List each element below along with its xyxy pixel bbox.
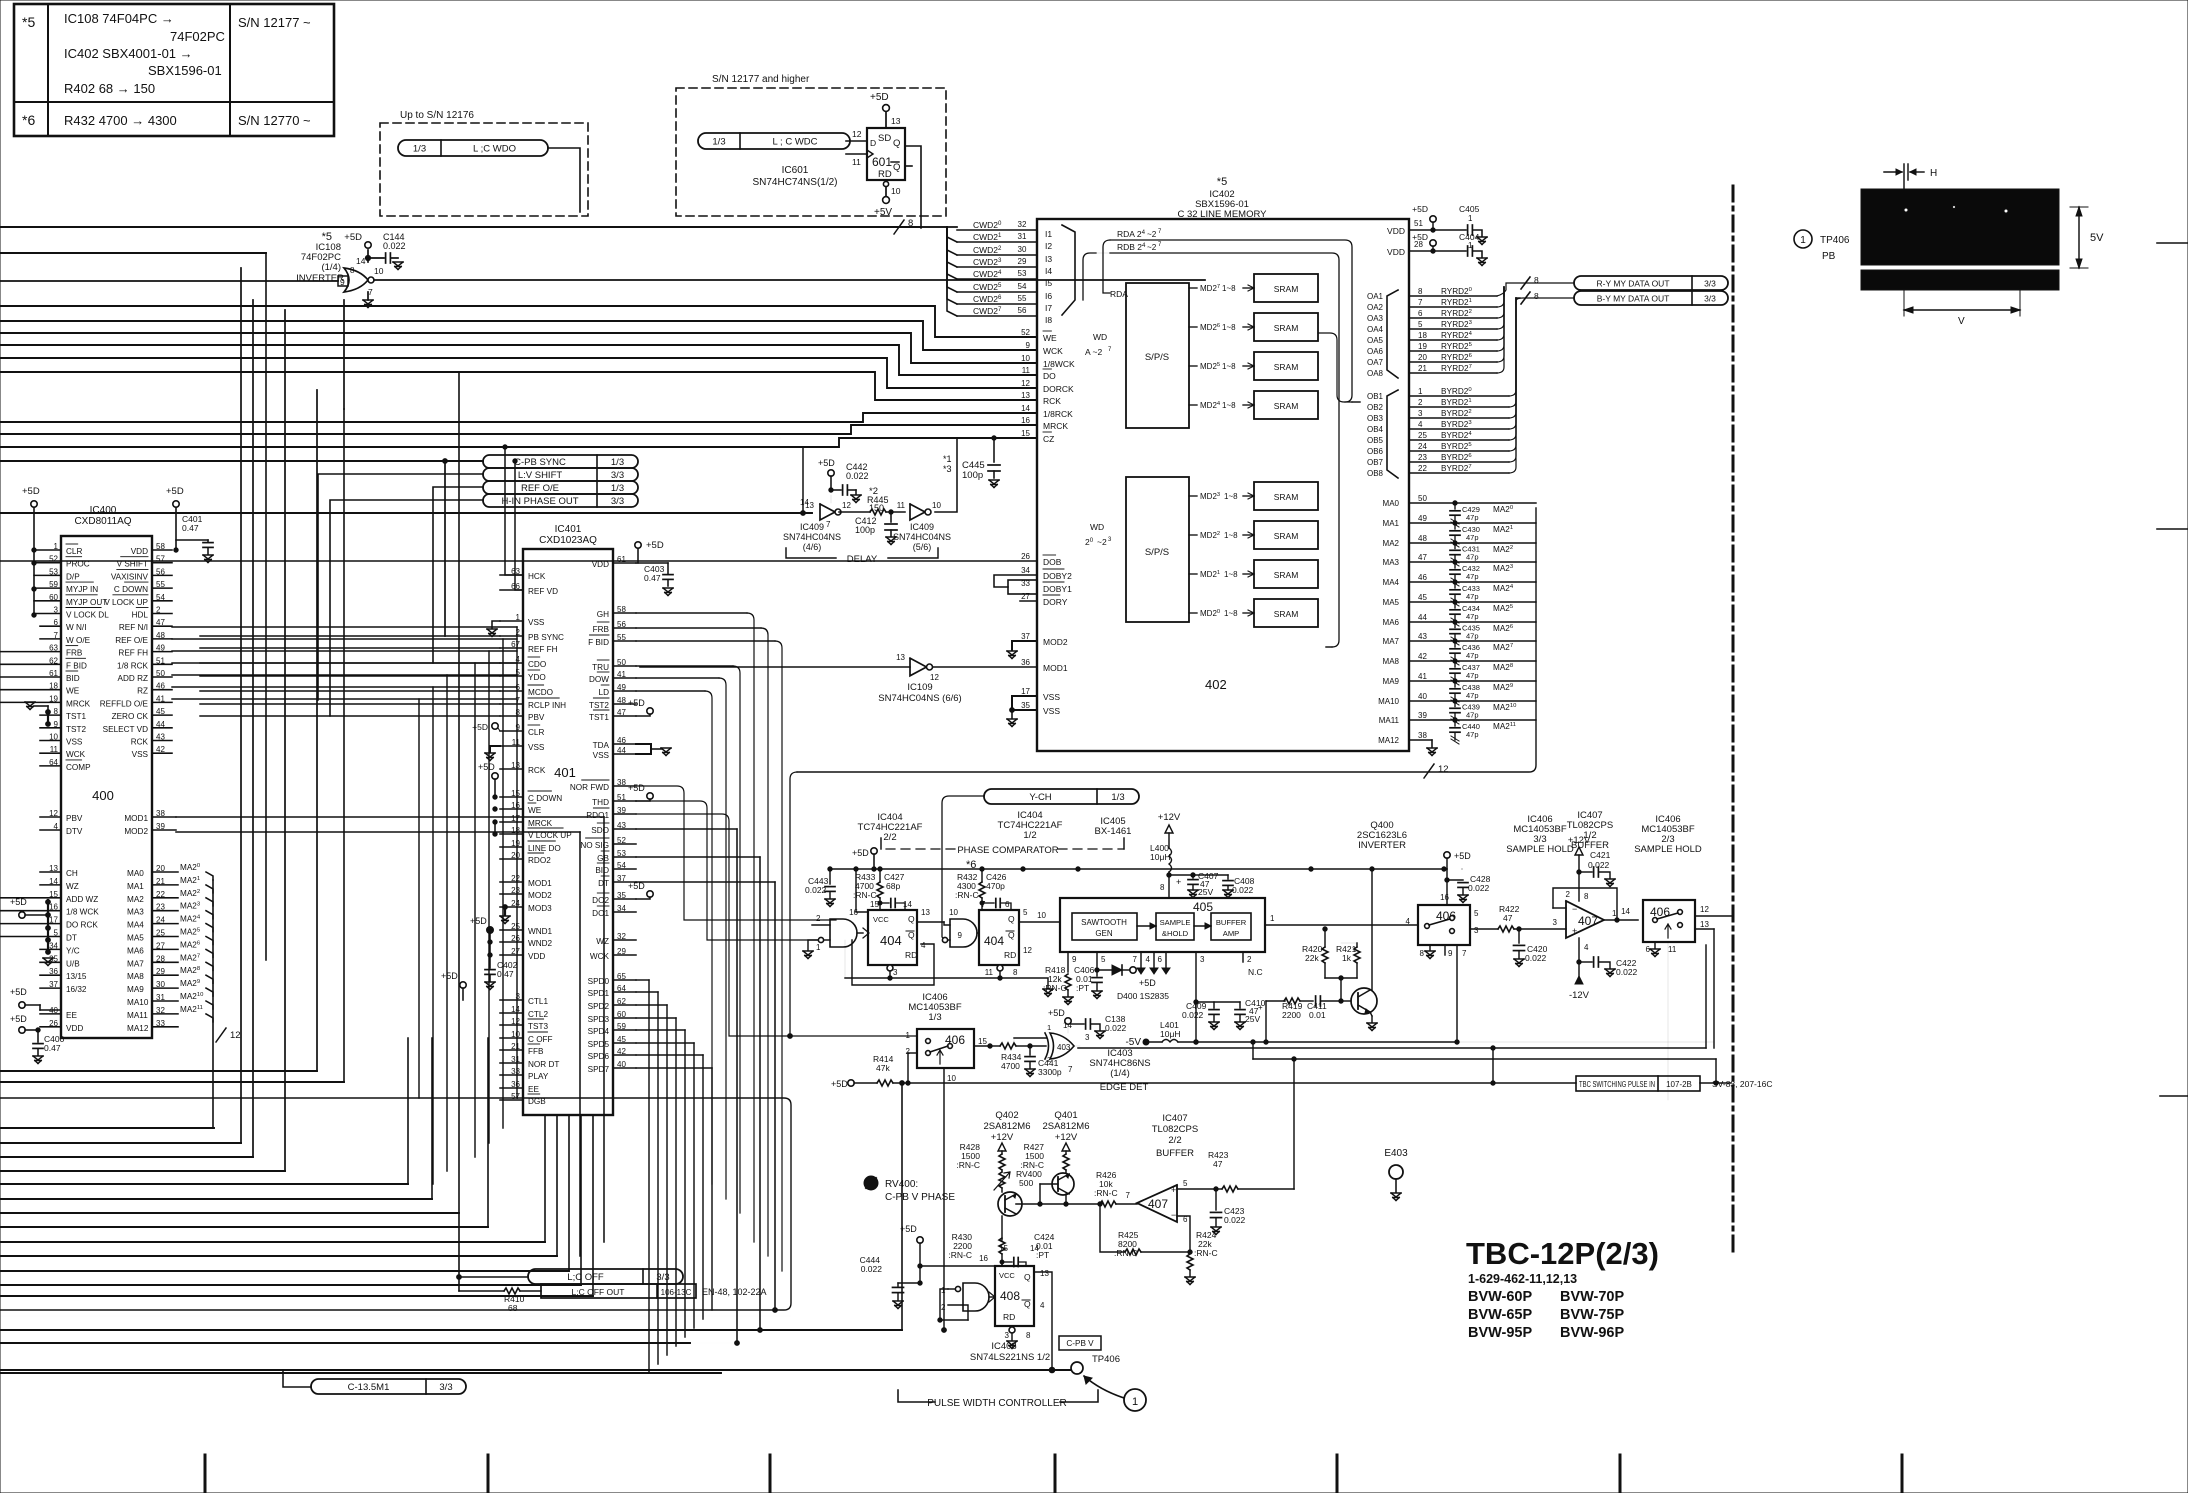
svg-text:55: 55 (1018, 294, 1027, 303)
svg-text:~2: ~2 (1097, 537, 1107, 547)
svg-text:TST2: TST2 (66, 725, 86, 734)
svg-text:SRAM: SRAM (1274, 401, 1299, 411)
inverter IC409 4/6 (820, 504, 835, 520)
wire bus (0, 1270, 569, 1272)
wire bus (0, 1226, 488, 1228)
wire bus (0, 1241, 545, 1243)
svg-text:47: 47 (1503, 913, 1513, 923)
capacitor C437 47p (1453, 659, 1457, 663)
svg-text:ADD RZ: ADD RZ (118, 674, 148, 683)
svg-text:5: 5 (1023, 908, 1028, 917)
svg-text:VSS: VSS (528, 743, 545, 752)
pin 2 NC (1242, 952, 1244, 962)
svg-text:SRAM: SRAM (1274, 570, 1299, 580)
svg-text:S/P/S: S/P/S (1145, 547, 1169, 558)
gate AND B (950, 919, 977, 947)
wire 408 Q out (1034, 1272, 1052, 1370)
pins 7 4 6 (1140, 952, 1142, 968)
svg-text:8: 8 (350, 266, 355, 275)
svg-text:1/3: 1/3 (712, 137, 725, 148)
svg-text:I3: I3 (1045, 254, 1052, 264)
svg-text:REF O/E: REF O/E (521, 483, 559, 494)
op-amp 407 top (1566, 901, 1604, 938)
svg-text:1/3: 1/3 (928, 1012, 941, 1023)
svg-text:10: 10 (947, 1074, 956, 1083)
svg-text:WD: WD (1090, 522, 1104, 532)
svg-text:7: 7 (1462, 949, 1467, 958)
svg-text:38: 38 (1418, 731, 1427, 740)
svg-text:8: 8 (1534, 291, 1539, 301)
power +5D EE (19, 1002, 25, 1008)
svg-text:4700: 4700 (1001, 1061, 1020, 1071)
connector C-13.5M1 (311, 1379, 466, 1394)
svg-text:MA8: MA8 (1383, 657, 1400, 666)
dim V (1904, 309, 2020, 311)
switch 406 1/3 (917, 1029, 974, 1068)
svg-text:C421: C421 (1590, 850, 1611, 860)
svg-text:RYRD21: RYRD21 (1441, 298, 1472, 307)
svg-text:Q: Q (908, 914, 915, 924)
svg-text:MA8: MA8 (127, 972, 144, 981)
svg-text:WD: WD (1093, 332, 1107, 342)
svg-text:7: 7 (1418, 298, 1423, 307)
wire XOR out (1074, 1045, 1080, 1047)
svg-text:DORCK: DORCK (1043, 384, 1074, 394)
wire BY bus merge (1509, 298, 1516, 396)
svg-text:MA7: MA7 (127, 959, 144, 968)
svg-text:RYRD26: RYRD26 (1441, 353, 1473, 362)
svg-text:2: 2 (816, 914, 821, 923)
block SRAM 0 (1254, 599, 1318, 627)
capacitor C402 (489, 955, 491, 968)
cap pins 15-14 A (879, 898, 881, 910)
chamfer OA (1387, 290, 1398, 378)
bracket phase comparator (880, 838, 882, 849)
svg-text:12: 12 (230, 1030, 241, 1041)
svg-text:1~8: 1~8 (1224, 492, 1238, 501)
power +5D right C401 (173, 501, 179, 507)
block S/P/S lower (1126, 477, 1189, 622)
svg-text:TL082CPS: TL082CPS (1152, 1124, 1198, 1135)
svg-text:(4/6): (4/6) (803, 542, 822, 552)
svg-text:V LOCK DL: V LOCK DL (66, 611, 109, 620)
svg-text:I5: I5 (1045, 278, 1052, 288)
bus slash 8 BY (1521, 292, 1530, 304)
svg-text:54: 54 (1018, 282, 1027, 291)
svg-text:I6: I6 (1045, 291, 1052, 301)
svg-text:C DOWN: C DOWN (528, 794, 562, 803)
svg-text:C-13.5M1: C-13.5M1 (348, 1382, 390, 1393)
chamfer OB (1387, 390, 1398, 478)
svg-text:+5D: +5D (870, 92, 889, 103)
svg-text:BUFFER: BUFFER (1216, 918, 1247, 927)
svg-text:2: 2 (1566, 890, 1571, 899)
svg-text:1: 1 (1047, 1023, 1051, 1032)
wire (200, 715, 500, 717)
svg-text:1/8RCK: 1/8RCK (1043, 409, 1073, 419)
svg-text:37: 37 (1021, 632, 1030, 641)
svg-text:*5: *5 (1217, 176, 1227, 188)
svg-text:C DOWN: C DOWN (114, 585, 148, 594)
svg-text::RN-C: :RN-C (948, 1250, 972, 1260)
svg-text:H-IN PHASE OUT: H-IN PHASE OUT (501, 496, 578, 507)
svg-text:404: 404 (984, 934, 1004, 948)
svg-text:C-PB V PHASE: C-PB V PHASE (885, 1192, 955, 1203)
svg-text:400: 400 (92, 788, 114, 803)
svg-text:RYRD25: RYRD25 (1441, 342, 1473, 351)
gate XOR 403 (1045, 1033, 1074, 1059)
power +5D CDOWN (492, 773, 498, 779)
svg-text:CWD20: CWD20 (973, 220, 1002, 230)
svg-text:FFB: FFB (528, 1047, 544, 1056)
svg-text:CWD26: CWD26 (973, 294, 1002, 304)
svg-text:(1/4): (1/4) (321, 262, 341, 273)
svg-text:THD: THD (592, 798, 609, 807)
svg-text:+5D: +5D (10, 987, 27, 997)
svg-text:VDD: VDD (528, 952, 545, 961)
wire bus (0, 306, 1037, 337)
connector L;C OFF OUT (541, 1284, 696, 1298)
svg-text:0.022: 0.022 (1525, 953, 1547, 963)
svg-text:CWD25: CWD25 (973, 282, 1002, 292)
svg-text:CZ: CZ (1043, 434, 1054, 444)
wire lower sps (1326, 646, 1332, 648)
svg-text:EE: EE (66, 1011, 77, 1020)
svg-text:9: 9 (1026, 341, 1031, 350)
svg-text:0.022: 0.022 (1105, 1023, 1127, 1033)
svg-text:DOBY1: DOBY1 (1043, 584, 1072, 594)
svg-text:500: 500 (1019, 1178, 1033, 1188)
wire bus 1373 (0, 1372, 721, 1374)
svg-text:12: 12 (930, 673, 939, 682)
wire Q402 collector (1002, 1192, 1005, 1196)
bus wires top band (0, 226, 921, 228)
risers (343, 409, 345, 1082)
block SRAM 4 (1254, 391, 1318, 419)
svg-text:VDD: VDD (131, 547, 148, 556)
svg-text:405: 405 (1193, 900, 1213, 914)
power +5D 408 (917, 1237, 923, 1243)
svg-text:YDO: YDO (528, 673, 546, 682)
svg-text:3/3: 3/3 (611, 470, 624, 481)
svg-text:RYRD23: RYRD23 (1441, 320, 1473, 329)
svg-text:CLR: CLR (66, 547, 82, 556)
revision table (14, 4, 334, 136)
svg-text:49: 49 (1418, 514, 1427, 523)
wire bus CWD (921, 226, 957, 228)
svg-text:BVW-60P: BVW-60P (1468, 1289, 1532, 1305)
wire Q400 emitter (1370, 1012, 1372, 1016)
svg-text:47k: 47k (876, 1063, 890, 1073)
svg-text:RDO2: RDO2 (528, 856, 551, 865)
ground VSS1 (492, 621, 500, 628)
wire bus (0, 1127, 214, 1129)
svg-text:13: 13 (896, 653, 905, 662)
svg-text:+5D: +5D (478, 762, 495, 772)
block sawtooth gen (1072, 913, 1137, 940)
capacitor C432 47p (1453, 560, 1457, 564)
svg-text:L:V SHIFT: L:V SHIFT (518, 470, 563, 481)
wire (636, 1042, 694, 1044)
wire (200, 675, 500, 677)
svg-text:BX-1461: BX-1461 (1095, 826, 1132, 837)
svg-text:I7: I7 (1045, 303, 1052, 313)
connector C-PB SYNC (483, 455, 638, 468)
wire (548, 148, 580, 212)
svg-text:L ; C WDC: L ; C WDC (772, 137, 817, 148)
svg-text:(5/6): (5/6) (913, 542, 932, 552)
svg-text:43: 43 (1418, 632, 1427, 641)
svg-text:IC401: IC401 (555, 524, 582, 535)
svg-text:47p: 47p (1466, 691, 1479, 700)
svg-text:V LOCK UP: V LOCK UP (104, 598, 148, 607)
svg-text:8: 8 (1160, 883, 1165, 892)
capacitor C429 47p (1453, 501, 1457, 505)
svg-text:10: 10 (1037, 911, 1046, 920)
wire RY bus merge (1497, 287, 1504, 307)
svg-text:29: 29 (1018, 257, 1027, 266)
svg-text:MA11: MA11 (1379, 716, 1400, 725)
wire (636, 1067, 712, 1069)
svg-text:1~8: 1~8 (1222, 284, 1236, 293)
capacitor C420 (1517, 927, 1521, 931)
svg-text:25V: 25V (1245, 1014, 1260, 1024)
svg-text:7: 7 (1068, 1065, 1073, 1074)
power +5D (365, 242, 371, 248)
label C-PB V (1059, 1336, 1101, 1350)
capacitor C407 (1169, 874, 1193, 876)
bus MA vertical (797, 508, 1536, 772)
capacitor C433 47p (1453, 580, 1457, 584)
svg-text:13: 13 (1040, 1269, 1049, 1278)
svg-text:+5D: +5D (646, 540, 664, 551)
svg-text:*5: *5 (22, 14, 35, 30)
svg-text:9: 9 (1072, 955, 1077, 964)
svg-text:Y-CH: Y-CH (1029, 792, 1051, 803)
svg-text:CTL1: CTL1 (528, 997, 548, 1006)
power +5D pin47 (647, 708, 653, 714)
wire to TBC pulse (1700, 1082, 1731, 1084)
svg-text:2SA812M6: 2SA812M6 (983, 1121, 1030, 1132)
flip-flop 408 (995, 1266, 1034, 1326)
wire (636, 1054, 703, 1056)
svg-text:47p: 47p (1466, 513, 1479, 522)
dashed box Up to S/N 12176 (380, 123, 588, 216)
block SRAM 5 (1254, 352, 1318, 380)
svg-text:8: 8 (1013, 968, 1018, 977)
svg-text:12: 12 (1438, 764, 1449, 775)
wire (636, 690, 705, 692)
svg-text:6: 6 (1005, 900, 1010, 909)
wire (636, 1017, 676, 1019)
svg-text:68: 68 (508, 1303, 518, 1313)
wire Q400 base (1341, 1000, 1351, 1002)
svg-text:23: 23 (1418, 453, 1427, 462)
svg-text:1/3: 1/3 (611, 457, 624, 468)
svg-text:DORY: DORY (1043, 597, 1068, 607)
inverter IC409 5/6 (910, 504, 925, 520)
svg-text:47p: 47p (1466, 651, 1479, 660)
capacitor C428 (1461, 868, 1463, 870)
wire 404A loop (852, 940, 934, 985)
connector Y-CH (984, 789, 1139, 804)
svg-text:7: 7 (1126, 1191, 1131, 1200)
svg-text:0.47: 0.47 (182, 523, 199, 533)
wire (172, 626, 517, 628)
svg-text:MA1: MA1 (1383, 519, 1400, 528)
bracket pulse width controller (898, 1390, 935, 1402)
connector H-IN PHASE OUT (483, 494, 638, 507)
wire (636, 979, 649, 981)
bus wires CWD fan (921, 226, 947, 228)
svg-text:C-PB V: C-PB V (1066, 1339, 1094, 1348)
test point TP406 (1049, 1367, 1055, 1373)
svg-text:0.022: 0.022 (846, 471, 869, 481)
svg-text:42: 42 (1418, 652, 1427, 661)
svg-text:+5D: +5D (1048, 1008, 1065, 1018)
svg-text:SAMPLE: SAMPLE (1160, 918, 1191, 927)
svg-text:BYRD25: BYRD25 (1441, 442, 1472, 451)
svg-text:SV-83, 207-16C: SV-83, 207-16C (1712, 1079, 1772, 1089)
block 405 (1060, 898, 1265, 952)
page edge marks (2157, 242, 2188, 244)
svg-text:-5V: -5V (1125, 1037, 1141, 1048)
svg-text:1/8 RCK: 1/8 RCK (117, 661, 148, 670)
svg-text:11: 11 (985, 968, 994, 977)
svg-text:BYRD22: BYRD22 (1441, 409, 1472, 418)
block SRAM 3 (1254, 482, 1318, 510)
svg-text:Q402: Q402 (995, 1110, 1018, 1121)
svg-text:3: 3 (893, 968, 898, 977)
transistor Q401 body (1052, 1173, 1074, 1195)
svg-text:(1/4): (1/4) (1110, 1068, 1130, 1079)
svg-text:14: 14 (800, 498, 809, 507)
svg-text:107-2B: 107-2B (1666, 1080, 1692, 1089)
svg-text:0.022: 0.022 (1182, 1010, 1204, 1020)
wire 404 outputs (917, 921, 944, 923)
svg-text:DELAY: DELAY (847, 554, 878, 565)
IC109 inverter 6/6 (910, 658, 927, 676)
wire (172, 650, 517, 652)
svg-text:11: 11 (1022, 366, 1031, 375)
svg-text:OA4: OA4 (1367, 325, 1384, 334)
svg-text:1~8: 1~8 (1222, 362, 1236, 371)
svg-text:22: 22 (1418, 464, 1427, 473)
wire vertical (240, 268, 242, 1143)
svg-text:18: 18 (1418, 331, 1427, 340)
wire bus (0, 372, 1037, 400)
svg-text:10: 10 (891, 186, 901, 196)
page tick marks (204, 1455, 207, 1493)
svg-text:45: 45 (1418, 593, 1427, 602)
connector 1/3 L;C WDC (698, 133, 850, 149)
svg-text:PBV: PBV (528, 713, 545, 722)
svg-text:47: 47 (1213, 1159, 1223, 1169)
capacitor C421 (1579, 871, 1592, 873)
wire (636, 1029, 685, 1031)
svg-text:12: 12 (1021, 379, 1030, 388)
wire (200, 662, 500, 664)
wire bus loop 1098 (0, 1098, 791, 1310)
svg-text:SPD6: SPD6 (588, 1052, 610, 1061)
svg-text:+5D: +5D (344, 232, 362, 243)
svg-text:601: 601 (872, 155, 892, 169)
svg-text:403: 403 (1057, 1043, 1071, 1052)
op-amp 407 lower (1137, 1185, 1177, 1222)
power +5D THD (647, 793, 653, 799)
svg-text:RDA: RDA (1110, 289, 1128, 299)
svg-text:SN74HC04NS (6/6): SN74HC04NS (6/6) (878, 693, 961, 704)
svg-text:10: 10 (374, 266, 384, 276)
wire bus (0, 1255, 557, 1257)
svg-text:32: 32 (1018, 220, 1027, 229)
bracket Y/C group (47, 900, 49, 952)
wires to pills (0, 460, 483, 462)
ground VSS pins (1012, 696, 1037, 710)
connector REF O/E (483, 481, 638, 494)
connector B-Y MY DATA OUT (1574, 291, 1728, 305)
svg-text:REF FH: REF FH (118, 649, 148, 658)
svg-text:FRB: FRB (66, 649, 83, 658)
wire rows IC401 right going right (636, 828, 737, 830)
svg-text:OA3: OA3 (1367, 314, 1384, 323)
svg-text:DO2: DO2 (592, 896, 609, 905)
svg-text:407: 407 (1148, 1197, 1168, 1211)
svg-text:53: 53 (1018, 269, 1027, 278)
svg-text:HCK: HCK (528, 572, 546, 581)
wire pin16 (856, 869, 868, 912)
svg-text:34: 34 (1021, 566, 1030, 575)
svg-text:BYRD21: BYRD21 (1441, 398, 1472, 407)
block SRAM 1 (1254, 560, 1318, 588)
wire bus (0, 1170, 285, 1172)
svg-text:SRAM: SRAM (1274, 609, 1299, 619)
svg-text:11: 11 (852, 157, 861, 167)
svg-text:10: 10 (949, 908, 958, 917)
svg-text:0.47: 0.47 (44, 1043, 61, 1053)
svg-text:PBV: PBV (66, 814, 83, 823)
svg-text:7: 7 (826, 520, 831, 529)
svg-text:16: 16 (1021, 416, 1030, 425)
wire 405 out (1265, 924, 1418, 926)
svg-text:24: 24 (1418, 442, 1427, 451)
svg-text:MOD1: MOD1 (124, 814, 148, 823)
pin 5 C406 D400 (1096, 952, 1098, 970)
svg-text:SPD1: SPD1 (588, 989, 610, 998)
power +12V Q402 (998, 1143, 1006, 1151)
power +5D MOD3 (504, 907, 506, 915)
svg-text:B-Y MY DATA OUT: B-Y MY DATA OUT (1597, 294, 1670, 304)
bus slash 12 (1424, 764, 1434, 778)
svg-text:3: 3 (1553, 918, 1558, 927)
svg-text:BVW-65P: BVW-65P (1468, 1307, 1532, 1323)
wire riser (516, 627, 518, 1098)
svg-text:13/15: 13/15 (66, 972, 87, 981)
svg-text:9: 9 (958, 931, 963, 940)
svg-text:OB6: OB6 (1367, 447, 1384, 456)
svg-text:CWD24: CWD24 (973, 269, 1002, 279)
svg-text:25V: 25V (1198, 887, 1213, 897)
svg-text:MA2: MA2 (1383, 539, 1400, 548)
svg-text:Q: Q (893, 138, 900, 149)
svg-text:IC109: IC109 (907, 682, 932, 693)
svg-text:20: 20 (1418, 353, 1427, 362)
svg-text:3/3: 3/3 (439, 1382, 452, 1393)
svg-text:9: 9 (1448, 949, 1453, 958)
svg-text:406: 406 (1650, 905, 1670, 919)
ground AND A (808, 940, 818, 950)
wire (374, 279, 1205, 281)
